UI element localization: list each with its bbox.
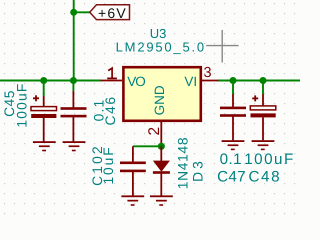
svg-text:GND: GND	[152, 85, 167, 115]
label C45	[2, 90, 17, 117]
pin name VI	[184, 74, 197, 89]
svg-text:100uF: 100uF	[15, 82, 30, 127]
svg-text:1N4148: 1N4148	[176, 137, 191, 190]
regulator U3 body	[123, 67, 200, 121]
cursor crosshair	[206, 30, 238, 63]
wire vertical +6V feed	[73, 0, 75, 81]
ground (C47)	[222, 140, 245, 150]
label C47	[217, 168, 246, 185]
svg-text:VO: VO	[127, 74, 145, 89]
svg-text:C48: C48	[248, 168, 281, 185]
diode D3	[153, 146, 170, 196]
pin 1 (VO)	[101, 68, 123, 80]
value LM2950_5.0	[116, 39, 206, 54]
svg-text:100uF: 100uF	[244, 151, 295, 168]
capacitor C47	[220, 94, 246, 140]
capacitor C48 (polarized)	[250, 94, 275, 140]
pin 3 (VI)	[202, 65, 219, 81]
junction +6V node	[70, 9, 77, 16]
wire drop to C45	[43, 81, 45, 97]
capacitor C46	[61, 91, 87, 142]
junction node pin2/D3/C102	[158, 143, 165, 150]
capacitor C102	[120, 146, 146, 196]
svg-text:0.1: 0.1	[220, 151, 242, 168]
wire drop to C47	[232, 81, 234, 95]
svg-text:LM2950_5.0: LM2950_5.0	[116, 39, 206, 54]
label 100uF (C48)	[244, 151, 295, 168]
label C48	[248, 168, 281, 185]
svg-text:10uF: 10uF	[101, 145, 116, 184]
ground (D3)	[150, 195, 173, 205]
svg-text:2: 2	[146, 127, 163, 136]
junction node C48	[260, 77, 267, 84]
wire main horizontal right (VI net)	[218, 80, 300, 82]
label 0.1 (C46)	[91, 99, 106, 122]
ground (C45)	[33, 141, 56, 151]
junction node C47	[230, 77, 237, 84]
label 0.1 (C47)	[220, 151, 242, 168]
svg-text:VI: VI	[184, 74, 197, 89]
ground (C48)	[252, 140, 275, 150]
wire main horizontal left (VO net)	[0, 80, 101, 82]
label C102	[90, 144, 105, 186]
svg-text:3: 3	[203, 65, 211, 81]
label D3	[191, 158, 206, 182]
svg-text:D3: D3	[191, 158, 206, 182]
label 1N4148	[176, 137, 191, 190]
label 10uF	[101, 145, 116, 184]
label C46	[103, 95, 118, 125]
junction node C45	[40, 77, 47, 84]
power label +6V	[90, 5, 130, 21]
ground (C102)	[121, 195, 144, 205]
svg-text:+6V: +6V	[98, 5, 127, 21]
pin 2 (GND)	[146, 122, 163, 146]
ground (C46)	[63, 141, 86, 151]
pin name VO	[127, 74, 145, 89]
wire stub to +6V label	[74, 11, 90, 13]
wire pin2 to C102 (horizontal)	[133, 145, 161, 147]
capacitor C45 (polarized)	[31, 95, 57, 141]
wire drop to C48	[262, 81, 264, 95]
reference U3	[150, 26, 167, 41]
pin name GND	[152, 85, 167, 115]
wire drop to C46	[72, 81, 74, 92]
label 100uF (C45)	[15, 82, 30, 127]
junction node C46	[70, 77, 77, 84]
svg-text:C47: C47	[217, 168, 246, 185]
svg-text:C46: C46	[103, 95, 118, 125]
